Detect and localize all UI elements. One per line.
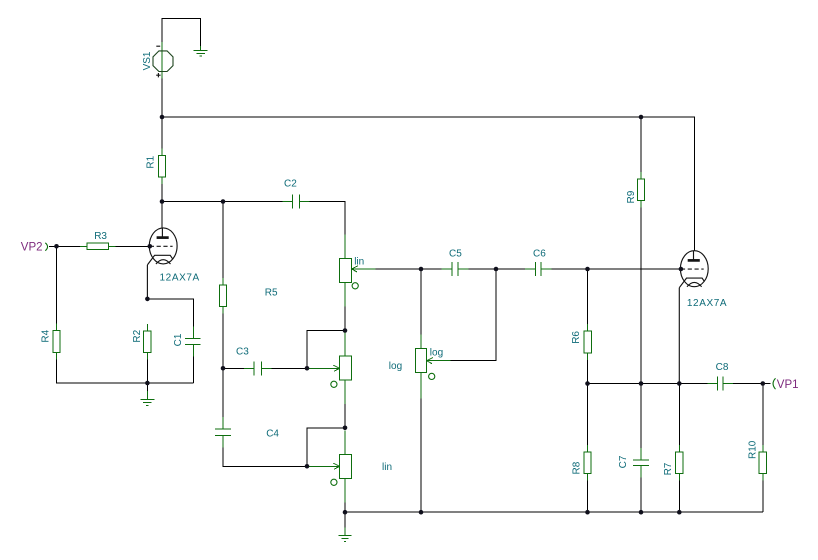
svg-text:log: log xyxy=(389,361,402,372)
svg-text:VP2: VP2 xyxy=(21,241,43,253)
svg-text:R10: R10 xyxy=(748,440,759,459)
svg-text:C1: C1 xyxy=(173,333,184,346)
svg-text:R8: R8 xyxy=(572,461,583,474)
svg-text:lin: lin xyxy=(382,462,392,473)
svg-text:C3: C3 xyxy=(236,346,249,357)
svg-text:C6: C6 xyxy=(533,249,546,260)
svg-text:VP1: VP1 xyxy=(777,379,799,391)
svg-text:12AX7A: 12AX7A xyxy=(687,298,727,309)
svg-text:R3: R3 xyxy=(94,231,107,242)
svg-text:lin: lin xyxy=(354,257,364,268)
svg-text:R6: R6 xyxy=(571,331,582,344)
svg-text:C4: C4 xyxy=(266,429,279,440)
svg-text:C2: C2 xyxy=(284,178,297,189)
svg-text:R2: R2 xyxy=(132,329,143,342)
svg-text:R5: R5 xyxy=(265,287,278,298)
svg-text:R1: R1 xyxy=(146,155,157,168)
svg-text:R7: R7 xyxy=(663,462,674,475)
svg-text:log: log xyxy=(430,347,443,358)
svg-text:C5: C5 xyxy=(449,249,462,260)
svg-text:C7: C7 xyxy=(618,455,629,468)
svg-text:C8: C8 xyxy=(716,362,729,373)
svg-text:R9: R9 xyxy=(626,190,637,203)
svg-text:R4: R4 xyxy=(41,329,52,342)
svg-text:VS1: VS1 xyxy=(142,51,153,70)
svg-text:12AX7A: 12AX7A xyxy=(160,272,200,283)
